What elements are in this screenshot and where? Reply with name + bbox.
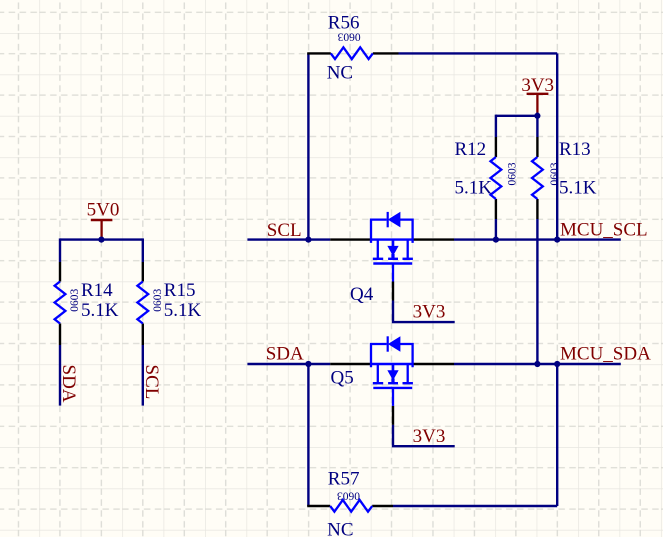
wire	[393, 425, 455, 446]
svg-text:3V3: 3V3	[521, 75, 554, 96]
wire	[393, 301, 455, 323]
resistor R13	[532, 137, 597, 219]
resistor R14	[55, 262, 119, 345]
svg-text:SDA: SDA	[58, 365, 79, 403]
svg-text:0603: 0603	[69, 288, 81, 311]
svg-text:5.1K: 5.1K	[559, 178, 597, 199]
wire	[556, 53, 558, 239]
junction	[305, 361, 311, 367]
svg-text:5V0: 5V0	[87, 200, 120, 221]
svg-text:Q4: Q4	[350, 284, 374, 305]
svg-text:3V3: 3V3	[413, 302, 446, 323]
svg-text:R14: R14	[81, 280, 113, 301]
transistor Q4	[330, 212, 454, 305]
power port 5V0	[87, 200, 120, 239]
junction	[554, 237, 560, 243]
wire SCL	[247, 238, 330, 240]
junction	[98, 237, 104, 243]
resistor R56	[307, 13, 398, 84]
power port 3V3	[521, 75, 554, 112]
svg-text:3V3: 3V3	[413, 426, 446, 447]
wire	[307, 53, 309, 239]
svg-text:0603: 0603	[337, 490, 360, 502]
wire	[59, 238, 61, 262]
wire MCU_SDA	[454, 363, 621, 365]
wire	[536, 219, 538, 364]
wire	[495, 115, 497, 137]
svg-text:R12: R12	[455, 139, 487, 160]
svg-text:0603: 0603	[337, 31, 360, 43]
svg-text:R57: R57	[328, 469, 360, 490]
junction	[493, 237, 499, 243]
svg-text:NC: NC	[327, 520, 353, 537]
wire	[536, 113, 538, 138]
svg-text:SCL: SCL	[267, 220, 302, 241]
svg-text:NC: NC	[327, 63, 353, 84]
svg-text:5.1K: 5.1K	[81, 300, 119, 321]
wire	[142, 345, 144, 406]
wire	[59, 345, 61, 406]
svg-text:0603: 0603	[507, 162, 519, 185]
wire	[399, 52, 558, 54]
wire SDA	[247, 363, 330, 365]
svg-text:0603: 0603	[549, 162, 561, 185]
svg-text:R13: R13	[559, 139, 591, 160]
svg-text:R56: R56	[328, 13, 360, 34]
resistor R15	[137, 262, 201, 345]
svg-text:R15: R15	[164, 280, 196, 301]
svg-text:Q5: Q5	[331, 368, 354, 389]
wire	[307, 364, 309, 506]
svg-text:SCL: SCL	[141, 365, 162, 400]
wire	[142, 238, 144, 262]
wire	[393, 505, 557, 507]
transistor Q5	[330, 336, 454, 425]
wire	[495, 219, 497, 240]
svg-text:0603: 0603	[152, 288, 164, 311]
resistor R57	[307, 469, 393, 537]
svg-text:MCU_SCL: MCU_SCL	[560, 220, 648, 241]
svg-text:5.1K: 5.1K	[164, 300, 202, 321]
junction	[534, 113, 540, 119]
junction	[534, 361, 540, 367]
svg-text:5.1K: 5.1K	[455, 178, 493, 199]
svg-text:SDA: SDA	[266, 343, 304, 364]
wire	[556, 364, 558, 506]
svg-text:MCU_SDA: MCU_SDA	[560, 343, 651, 364]
resistor R12	[455, 137, 519, 219]
junction	[305, 237, 311, 243]
wire	[60, 238, 143, 240]
wire MCU_SCL	[454, 238, 621, 240]
wire	[496, 115, 538, 117]
junction	[554, 361, 560, 367]
